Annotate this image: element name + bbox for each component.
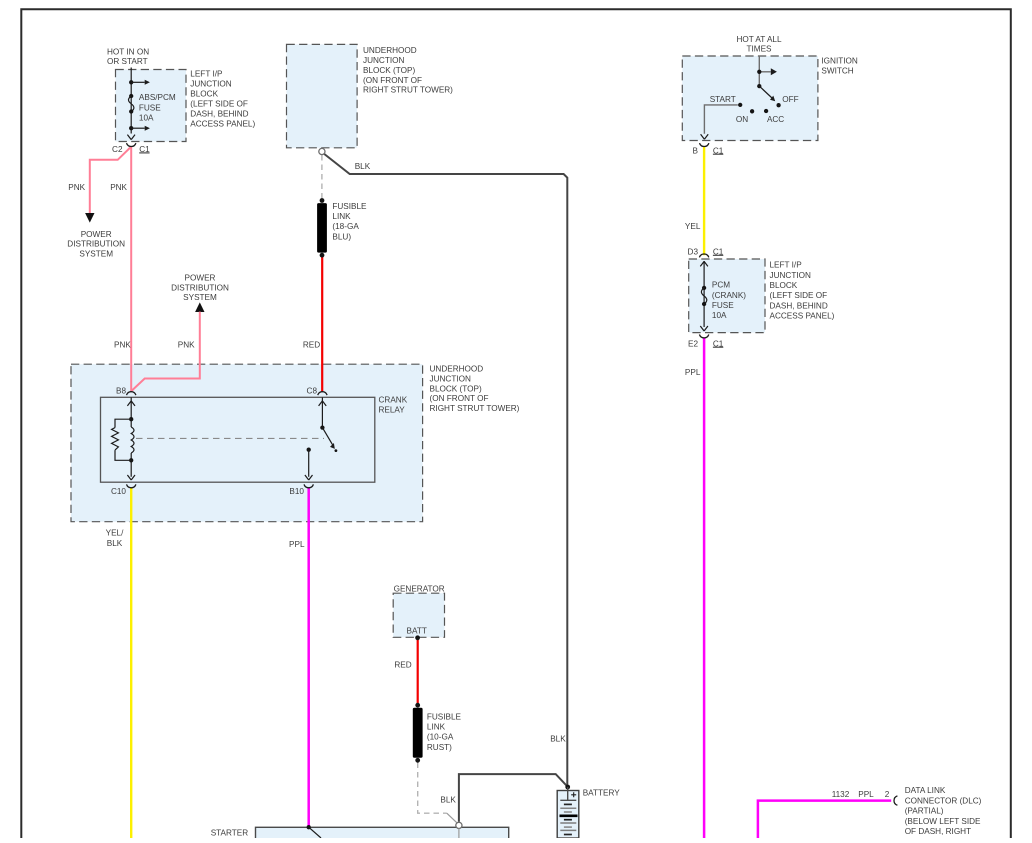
svg-text:JUNCTION: JUNCTION bbox=[190, 79, 231, 88]
svg-text:LEFT I/P: LEFT I/P bbox=[190, 69, 223, 78]
svg-text:PNK: PNK bbox=[178, 341, 195, 350]
svg-text:BLK: BLK bbox=[107, 539, 123, 548]
svg-text:UNDERHOOD: UNDERHOOD bbox=[430, 365, 484, 374]
svg-text:BLU): BLU) bbox=[332, 232, 351, 241]
svg-text:(LEFT SIDE OF: (LEFT SIDE OF bbox=[770, 291, 828, 300]
svg-text:FUSIBLE: FUSIBLE bbox=[427, 712, 462, 721]
svg-text:C2: C2 bbox=[112, 145, 123, 154]
svg-text:POWER: POWER bbox=[185, 274, 216, 283]
svg-text:RUST): RUST) bbox=[427, 743, 452, 752]
svg-text:JUNCTION: JUNCTION bbox=[770, 271, 811, 280]
svg-text:B8: B8 bbox=[116, 386, 126, 395]
svg-text:DASH, BEHIND: DASH, BEHIND bbox=[190, 110, 248, 119]
svg-text:LEFT I/P: LEFT I/P bbox=[770, 261, 803, 270]
svg-text:E2: E2 bbox=[688, 339, 698, 348]
svg-text:ACCESS PANEL): ACCESS PANEL) bbox=[770, 311, 835, 320]
svg-text:HOT IN ON: HOT IN ON bbox=[107, 48, 149, 57]
svg-text:C8: C8 bbox=[307, 386, 318, 395]
svg-text:PNK: PNK bbox=[68, 183, 85, 192]
svg-text:YEL: YEL bbox=[685, 222, 701, 231]
svg-text:OFF: OFF bbox=[782, 95, 798, 104]
svg-text:PPL: PPL bbox=[289, 540, 305, 549]
svg-text:LINK: LINK bbox=[427, 722, 446, 731]
svg-text:TIMES: TIMES bbox=[746, 45, 772, 54]
svg-text:FUSE: FUSE bbox=[712, 301, 734, 310]
svg-text:GENERATOR: GENERATOR bbox=[394, 584, 445, 593]
svg-text:BLOCK: BLOCK bbox=[190, 89, 218, 98]
svg-text:10A: 10A bbox=[139, 114, 154, 123]
svg-text:1132: 1132 bbox=[832, 790, 850, 799]
svg-text:LINK: LINK bbox=[332, 212, 351, 221]
svg-text:JUNCTION: JUNCTION bbox=[363, 56, 404, 65]
svg-text:DISTRIBUTION: DISTRIBUTION bbox=[67, 240, 125, 249]
svg-text:BLK: BLK bbox=[440, 796, 456, 805]
svg-text:START: START bbox=[710, 95, 736, 104]
svg-text:STARTER: STARTER bbox=[211, 829, 249, 838]
svg-text:D3: D3 bbox=[688, 248, 699, 257]
svg-text:FUSE: FUSE bbox=[139, 103, 161, 112]
svg-text:BLOCK: BLOCK bbox=[770, 281, 798, 290]
svg-text:(PARTIAL): (PARTIAL) bbox=[905, 807, 944, 816]
svg-text:PPL: PPL bbox=[685, 368, 701, 377]
svg-text:PPL: PPL bbox=[858, 790, 874, 799]
svg-text:ACC: ACC bbox=[767, 115, 784, 124]
svg-text:CRANK: CRANK bbox=[379, 396, 408, 405]
svg-text:BATT: BATT bbox=[407, 626, 427, 635]
svg-text:UNDERHOOD: UNDERHOOD bbox=[363, 46, 417, 55]
svg-text:RED: RED bbox=[303, 341, 320, 350]
svg-text:RED: RED bbox=[394, 661, 411, 670]
svg-text:OR START: OR START bbox=[107, 57, 148, 66]
svg-text:FUSIBLE: FUSIBLE bbox=[332, 202, 367, 211]
svg-text:B: B bbox=[693, 146, 699, 155]
svg-text:CONNECTOR (DLC): CONNECTOR (DLC) bbox=[905, 796, 982, 805]
svg-text:SYSTEM: SYSTEM bbox=[79, 249, 113, 258]
svg-text:BLOCK (TOP): BLOCK (TOP) bbox=[363, 66, 415, 75]
svg-text:DASH, BEHIND: DASH, BEHIND bbox=[770, 301, 828, 310]
svg-text:PNK: PNK bbox=[114, 341, 131, 350]
svg-text:RELAY: RELAY bbox=[379, 406, 406, 415]
svg-text:IGNITION: IGNITION bbox=[821, 56, 857, 65]
svg-text:HOT AT ALL: HOT AT ALL bbox=[736, 35, 781, 44]
svg-text:SWITCH: SWITCH bbox=[821, 66, 853, 75]
svg-text:YEL/: YEL/ bbox=[106, 529, 124, 538]
svg-text:POWER: POWER bbox=[81, 230, 112, 239]
svg-text:BLOCK (TOP): BLOCK (TOP) bbox=[430, 384, 482, 393]
svg-text:C10: C10 bbox=[111, 487, 126, 496]
svg-text:(18-GA: (18-GA bbox=[332, 222, 359, 231]
svg-text:JUNCTION: JUNCTION bbox=[430, 374, 471, 383]
svg-text:(BELOW LEFT SIDE: (BELOW LEFT SIDE bbox=[905, 817, 981, 826]
svg-text:BLK: BLK bbox=[355, 162, 371, 171]
svg-text:(ON FRONT OF: (ON FRONT OF bbox=[430, 394, 489, 403]
svg-text:B10: B10 bbox=[289, 487, 304, 496]
svg-text:BATTERY: BATTERY bbox=[583, 788, 621, 797]
svg-text:(CRANK): (CRANK) bbox=[712, 291, 746, 300]
svg-text:OF DASH, RIGHT: OF DASH, RIGHT bbox=[905, 827, 971, 836]
svg-text:ABS/PCM: ABS/PCM bbox=[139, 93, 176, 102]
svg-text:PCM: PCM bbox=[712, 281, 730, 290]
svg-text:(10-GA: (10-GA bbox=[427, 733, 454, 742]
svg-text:DISTRIBUTION: DISTRIBUTION bbox=[171, 283, 229, 292]
svg-text:RIGHT STRUT TOWER): RIGHT STRUT TOWER) bbox=[430, 404, 520, 413]
svg-text:BLK: BLK bbox=[550, 735, 566, 744]
svg-text:SYSTEM: SYSTEM bbox=[183, 293, 217, 302]
svg-text:10A: 10A bbox=[712, 311, 727, 320]
svg-text:(LEFT SIDE OF: (LEFT SIDE OF bbox=[190, 100, 248, 109]
svg-text:ON: ON bbox=[736, 115, 748, 124]
svg-text:2: 2 bbox=[885, 790, 890, 799]
svg-text:PNK: PNK bbox=[110, 183, 127, 192]
svg-text:ACCESS PANEL): ACCESS PANEL) bbox=[190, 120, 255, 129]
svg-text:DATA LINK: DATA LINK bbox=[905, 786, 946, 795]
svg-text:(ON FRONT OF: (ON FRONT OF bbox=[363, 76, 422, 85]
svg-text:RIGHT STRUT TOWER): RIGHT STRUT TOWER) bbox=[363, 86, 453, 95]
